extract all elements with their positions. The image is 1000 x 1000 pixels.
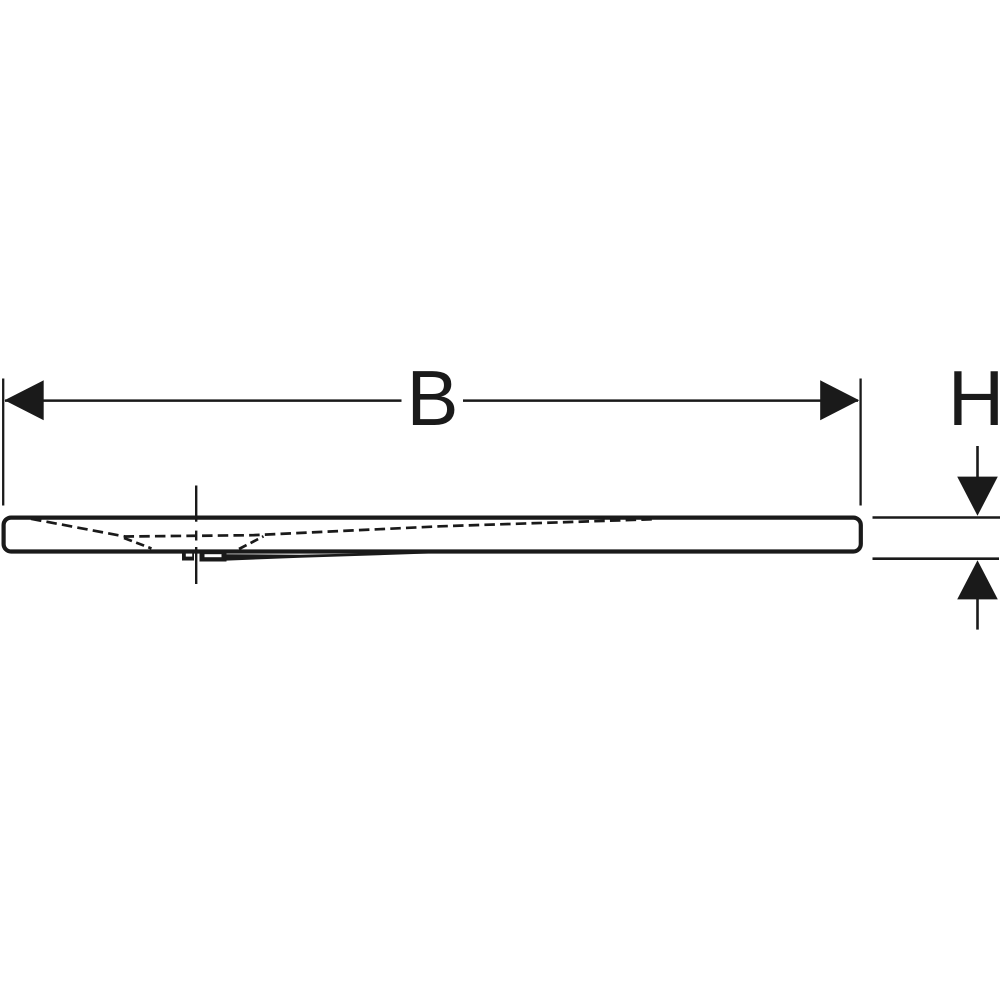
arrowhead B right: [820, 380, 859, 420]
dimension line B right segment: [463, 399, 858, 402]
dimension line B left segment: [5, 399, 402, 402]
drain boss right window: [205, 554, 222, 557]
drain centerline top segment: [195, 486, 197, 522]
drain centerline short dash: [195, 531, 197, 541]
extension line left: [2, 379, 4, 506]
drain centerline bottom segment: [195, 547, 197, 584]
hidden slope line (dashed): [31, 519, 655, 537]
extension line right: [859, 379, 861, 506]
shower tray outline: [4, 518, 861, 552]
H upper leader line: [873, 516, 1000, 519]
H up arrowhead: [957, 560, 998, 599]
drain funnel left dashed diagonal: [124, 538, 152, 549]
H lower leader line: [873, 557, 1000, 560]
tray underside slope wedge: [227, 552, 433, 561]
drain boss right block: [200, 550, 227, 562]
H down arrow shaft: [976, 446, 979, 478]
svg-text:B: B: [406, 354, 458, 442]
svg-text:H: H: [948, 354, 1000, 442]
arrowhead B left: [5, 380, 44, 420]
drain funnel right dashed diagonal: [239, 536, 264, 549]
drain boss left window: [186, 554, 192, 557]
H up arrow shaft: [976, 598, 979, 630]
H down arrowhead: [957, 477, 998, 516]
drain boss left block: [182, 550, 194, 561]
